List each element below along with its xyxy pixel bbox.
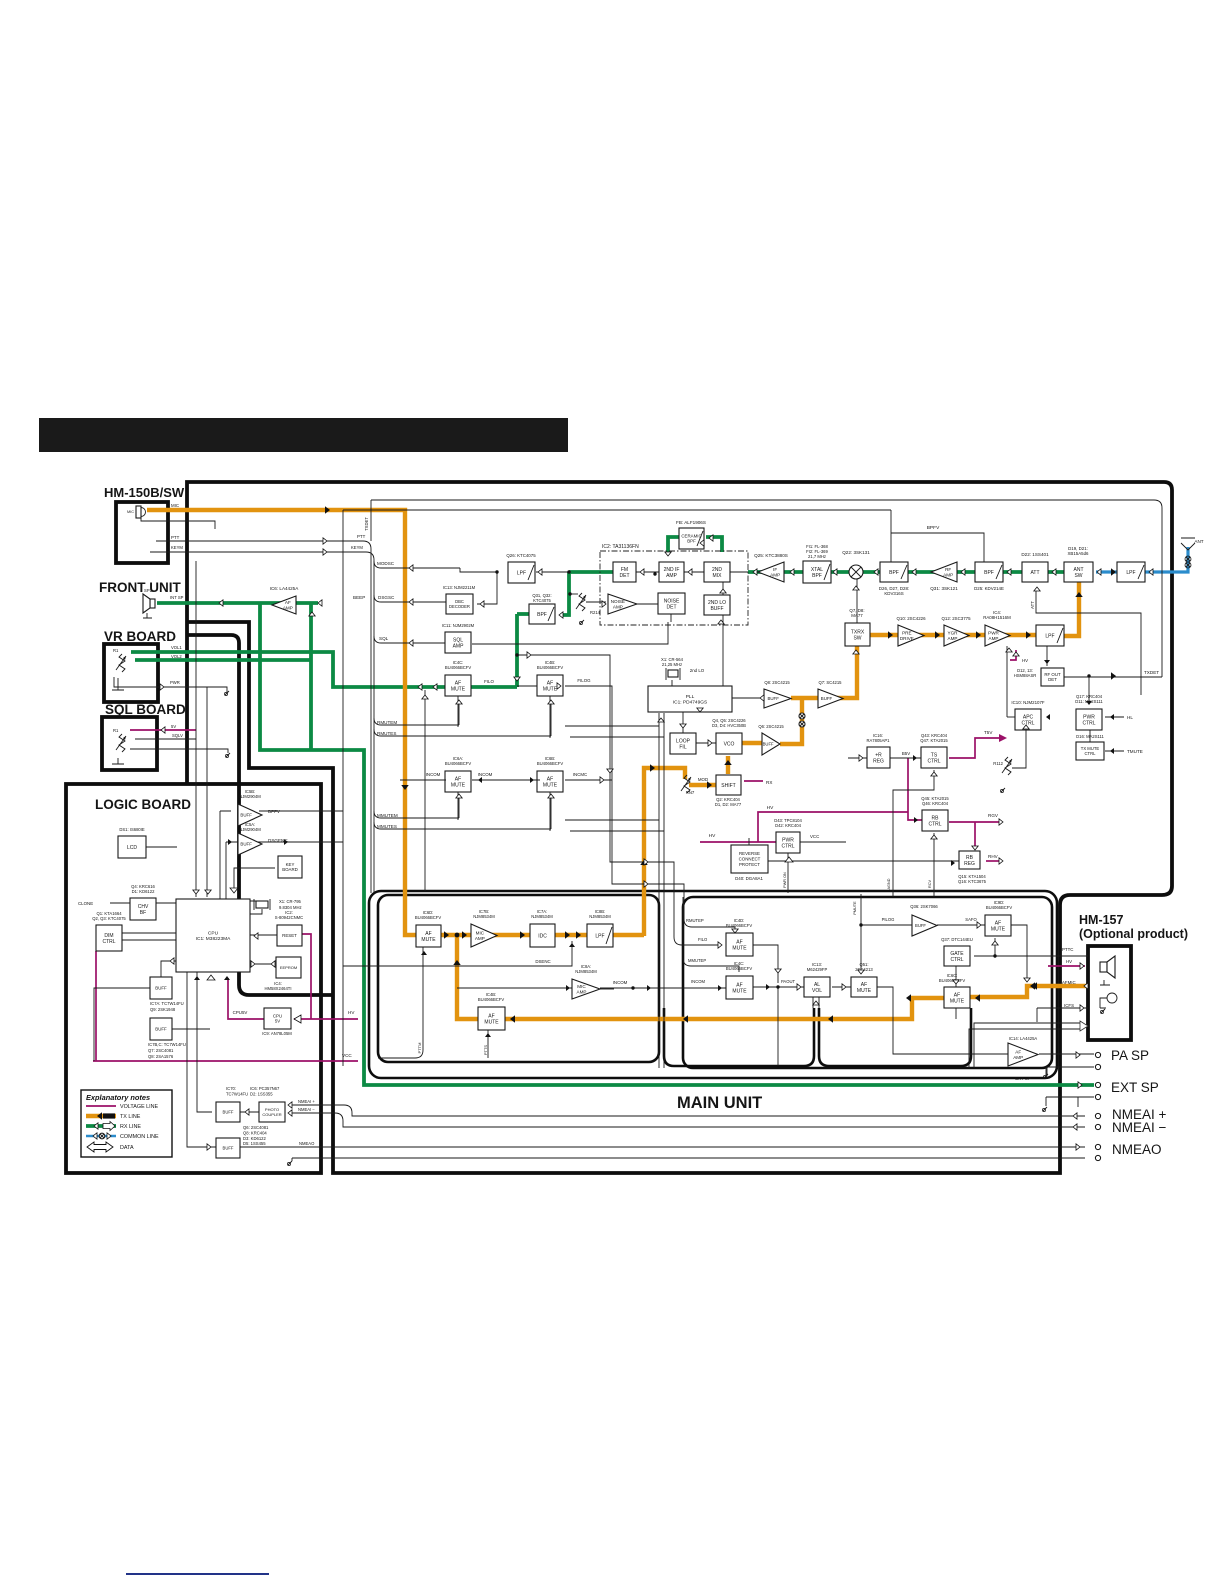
svg-text:TXDET: TXDET [364,517,369,531]
svg-text:2nd LO: 2nd LO [690,668,705,673]
svg-text:BU4066BCFV: BU4066BCFV [537,665,564,670]
svg-text:CTRL: CTRL [102,939,115,945]
svg-text:D5: 1SS455: D5: 1SS455 [243,1141,266,1146]
svg-text:SQL: SQL [379,636,389,641]
svg-text:RX: RX [766,780,772,785]
svg-text:CPU5V: CPU5V [233,1010,248,1015]
svg-text:PLL: PLL [686,694,695,700]
svg-text:SP1: SP1 [144,588,153,593]
svg-text:AFMIC: AFMIC [1062,980,1076,985]
svg-text:AMP: AMP [453,643,465,649]
svg-text:YGR: YGR [948,630,959,635]
svg-text:BUFF: BUFF [915,923,926,928]
svg-text:BU4066BCFV: BU4066BCFV [537,761,564,766]
svg-text:SHIFT: SHIFT [721,783,735,789]
svg-text:DSGSC: DSGSC [378,595,395,600]
svg-text:EXT SP: EXT SP [1111,1080,1159,1095]
svg-text:NJM2904M: NJM2904M [239,794,261,799]
svg-text:VOL: VOL [812,988,822,994]
svg-text:CTRL: CTRL [1085,751,1097,756]
svg-text:NJM8534M: NJM8534M [531,914,553,919]
svg-text:PWR: PWR [170,680,180,685]
svg-text:BPF: BPF [537,612,547,618]
svg-text:PWR: PWR [988,630,999,635]
svg-text:IF: IF [773,567,777,572]
svg-text:BUFF: BUFF [821,696,833,701]
svg-text:ICFS: ICFS [1064,1003,1074,1008]
svg-text:Q6: 2SC4215: Q6: 2SC4215 [758,724,784,729]
svg-text:CLONE: CLONE [78,901,93,906]
svg-text:BU4066BCFV: BU4066BCFV [939,978,966,983]
svg-text:AF: AF [285,600,291,605]
svg-text:RMUTES: RMUTES [377,731,396,736]
svg-text:IC2: TA31136FN: IC2: TA31136FN [602,544,639,550]
svg-text:VOL2: VOL2 [171,654,182,659]
svg-text:COUPLER: COUPLER [262,1112,281,1117]
svg-text:MUTE: MUTE [991,926,1006,932]
svg-text:INCOM: INCOM [613,980,628,985]
svg-text:BUFF: BUFF [240,842,252,847]
svg-text:DS1: IS680IE: DS1: IS680IE [119,827,145,832]
svg-text:SW: SW [1074,573,1082,579]
svg-text:FILOG: FILOG [577,678,591,683]
svg-text:FILO: FILO [484,679,494,684]
svg-text:FILO: FILO [698,937,708,942]
svg-text:AMP: AMP [577,989,587,994]
svg-text:PA SP: PA SP [1111,1048,1149,1063]
svg-text:PRE: PRE [902,630,911,635]
svg-text:AMP: AMP [943,572,953,577]
svg-text:VOL1: VOL1 [171,645,182,650]
svg-text:TC7W14FU: TC7W14FU [226,1091,248,1096]
svg-text:NOISE: NOISE [611,599,625,604]
svg-text:AMP: AMP [770,572,780,577]
svg-text:D1, D2: MA77: D1, D2: MA77 [715,802,742,807]
svg-text:BU4066BCFV: BU4066BCFV [986,905,1013,910]
svg-text:DSENC: DSENC [535,959,550,964]
svg-text:IC6: LA4425A: IC6: LA4425A [270,586,300,591]
svg-text:T5V: T5V [984,730,993,735]
svg-text:RHV: RHV [988,854,999,859]
svg-text:CERAMIC: CERAMIC [681,533,701,538]
svg-text:KEYM: KEYM [171,545,183,550]
svg-text:MIC: MIC [127,510,134,514]
svg-text:INCOM: INCOM [691,979,705,984]
svg-text:MUTE: MUTE [451,686,466,692]
svg-text:LPF: LPF [595,933,604,939]
svg-text:NJM8534M: NJM8534M [589,914,611,919]
svg-text:D2: 1SS355: D2: 1SS355 [250,1091,273,1096]
svg-text:BPFV: BPFV [927,525,940,531]
svg-text:AMP: AMP [613,604,623,609]
svg-text:HV: HV [1022,658,1028,663]
svg-text:5V: 5V [171,724,176,729]
svg-text:DET: DET [667,604,677,610]
svg-text:MUTE: MUTE [732,945,747,951]
svg-text:LPF: LPF [1045,633,1054,639]
svg-text:IC14: LA4425A: IC14: LA4425A [1009,1036,1038,1041]
svg-text:BPF: BPF [687,539,696,544]
svg-text:VCO: VCO [724,741,735,747]
svg-text:R1: R1 [113,728,119,733]
svg-text:FRONT UNIT: FRONT UNIT [99,580,181,595]
svg-text:BUFF: BUFF [223,1145,234,1150]
svg-text:NJM8534M: NJM8534M [575,969,597,974]
svg-text:REVERSE: REVERSE [739,851,760,856]
svg-text:MA77: MA77 [851,613,863,618]
svg-text:Q26: KTC4075: Q26: KTC4075 [506,553,536,558]
svg-text:REG: REG [873,758,884,764]
svg-text:MMUTEM: MMUTEM [377,813,398,818]
svg-text:CTRL: CTRL [781,843,794,849]
svg-text:TX LINE: TX LINE [120,1114,141,1120]
svg-text:LCD: LCD [127,845,137,851]
svg-text:IDC: IDC [538,933,547,939]
svg-text:Q8: KRC404: Q8: KRC404 [243,1130,267,1135]
svg-text:NMEAO: NMEAO [299,1141,315,1146]
svg-text:BPFV: BPFV [268,809,281,814]
svg-text:RA08H1516M: RA08H1516M [983,615,1011,620]
svg-text:IC7A: TC7W14FU: IC7A: TC7W14FU [150,1001,184,1006]
svg-text:PTT: PTT [171,535,180,540]
svg-text:BUFF: BUFF [710,606,723,612]
svg-text:AMP: AMP [989,636,999,641]
svg-text:Explanatory notes: Explanatory notes [86,1093,150,1102]
svg-text:NMEAI −: NMEAI − [1112,1120,1167,1135]
svg-text:D16: MA2S111: D16: MA2S111 [1076,734,1104,739]
svg-text:CONNECT: CONNECT [739,857,761,862]
svg-text:INCOM: INCOM [478,772,493,777]
svg-text:NMEAI +: NMEAI + [298,1099,315,1104]
svg-text:RF: RF [945,567,951,572]
svg-text:BU4066BCFV: BU4066BCFV [445,761,472,766]
svg-text:LOGIC BOARD: LOGIC BOARD [95,797,191,812]
svg-text:INT SP: INT SP [170,595,184,600]
svg-text:Q2, Q3: KTC4075: Q2, Q3: KTC4075 [92,916,126,921]
svg-text:ATT: ATT [1030,570,1039,576]
svg-text:MUTE: MUTE [950,998,965,1004]
svg-text:MMUTEP: MMUTEP [688,958,706,963]
svg-text:RMUTEP: RMUTEP [686,918,704,923]
svg-text:VCC: VCC [342,1053,352,1058]
svg-text:Q9: 2SK1948: Q9: 2SK1948 [150,1007,176,1012]
svg-text:DRIVE: DRIVE [900,636,914,641]
svg-text:BU4066BCFV: BU4066BCFV [726,966,753,971]
svg-text:Q8: 2SA1576: Q8: 2SA1576 [148,1054,174,1059]
svg-text:IC9: AN78L05M: IC9: AN78L05M [262,1031,292,1036]
svg-text:BU4066BCFV: BU4066BCFV [726,923,753,928]
svg-text:MMUTES: MMUTES [377,824,397,829]
svg-text:Q47: KTA2015: Q47: KTA2015 [920,738,948,743]
svg-text:HL: HL [1127,715,1133,720]
svg-text:SQLV: SQLV [172,733,183,738]
svg-text:AF: AF [1015,1049,1021,1054]
svg-text:NMEAO: NMEAO [1112,1142,1162,1157]
svg-text:BPF: BPF [812,573,822,579]
svg-text:AMP: AMP [475,936,485,941]
svg-text:PMUTE: PMUTE [853,901,857,915]
svg-text:EEPROM: EEPROM [280,965,297,970]
svg-text:IC70:: IC70: [226,1086,236,1091]
svg-text:PWR ON: PWR ON [783,872,787,888]
svg-text:IC6: PC357N67: IC6: PC357N67 [250,1086,280,1091]
svg-text:M62429FP: M62429FP [807,967,828,972]
svg-text:21,7 MHz: 21,7 MHz [808,554,826,559]
svg-text:AMP: AMP [666,573,678,579]
svg-text:SAFO: SAFO [965,917,977,922]
svg-text:MIX: MIX [713,573,723,579]
svg-text:Q10: 2SC4226: Q10: 2SC4226 [896,616,926,621]
svg-text:IC1: PD4749GS: IC1: PD4749GS [673,700,707,706]
svg-text:NJM2904M: NJM2904M [239,827,261,832]
svg-text:D42: KRC404: D42: KRC404 [775,823,802,828]
svg-text:INCOM: INCOM [426,772,441,777]
svg-text:MUTE: MUTE [451,782,466,788]
svg-text:2SC4213: 2SC4213 [855,967,873,972]
svg-text:MIC: MIC [476,930,485,935]
svg-text:Q6: 2SC4081: Q6: 2SC4081 [243,1125,269,1130]
svg-text:VR BOARD: VR BOARD [104,629,176,644]
svg-text:PTT: PTT [357,534,366,539]
svg-text:IC10: NJM2107F: IC10: NJM2107F [1011,700,1045,705]
svg-text:CTRL: CTRL [928,821,941,827]
svg-text:BF: BF [140,910,146,916]
svg-text:21,25 MHz: 21,25 MHz [662,662,682,667]
svg-text:AMP: AMP [1013,1055,1023,1060]
svg-text:BPF: BPF [889,570,899,576]
svg-text:5V: 5V [275,1019,280,1024]
svg-text:MIC: MIC [577,984,586,989]
svg-text:IC1: M38223MA: IC1: M38223MA [196,936,231,942]
svg-text:PAOUT: PAOUT [781,979,796,984]
svg-text:BUFF: BUFF [155,986,167,991]
svg-text:AMP: AMP [948,636,958,641]
svg-text:Q16: KTC3675: Q16: KTC3675 [958,879,987,884]
svg-text:HSM88ASR: HSM88ASR [1014,673,1037,678]
svg-text:D3, D4: HVC350B: D3, D4: HVC350B [712,723,746,728]
svg-text:HV: HV [1066,959,1072,964]
svg-text:PTTS: PTTS [483,1045,488,1056]
svg-text:DECODER: DECODER [449,604,470,609]
svg-text:MIC: MIC [171,503,179,508]
svg-text:BUFF: BUFF [240,813,252,818]
svg-text:Q7: 2SC4081: Q7: 2SC4081 [148,1048,174,1053]
svg-text:Q31: 3SK121: Q31: 3SK121 [930,586,958,591]
svg-text:BU4066BCFV: BU4066BCFV [478,997,505,1002]
svg-text:DET: DET [620,573,630,579]
svg-text:PROTECT: PROTECT [739,862,760,867]
svg-text:IC13: NJM2211M: IC13: NJM2211M [443,585,476,590]
svg-text:CPU: CPU [208,930,219,936]
svg-text:BOARD: BOARD [282,867,298,872]
svg-text:RF OUT: RF OUT [1044,672,1061,677]
svg-text:MAIN UNIT: MAIN UNIT [677,1094,762,1112]
svg-text:REG: REG [964,861,975,867]
svg-text:HM-150B/SW: HM-150B/SW [104,485,185,500]
svg-text:HM58X2464TI: HM58X2464TI [265,986,292,991]
svg-text:RN7: RN7 [686,790,695,795]
svg-text:MUTE: MUTE [484,1019,499,1025]
svg-text:ANT: ANT [1194,539,1203,544]
svg-text:BUFF: BUFF [763,741,774,746]
svg-text:KEY: KEY [286,862,295,867]
svg-text:LPF: LPF [1126,570,1135,576]
svg-text:Q36: 2SK7066: Q36: 2SK7066 [910,904,938,909]
svg-text:MUTE: MUTE [857,988,872,994]
svg-text:TMUTE: TMUTE [1127,749,1143,754]
svg-text:R1: R1 [113,648,119,653]
svg-text:RESET: RESET [282,933,297,938]
svg-text:MODSC: MODSC [377,561,395,566]
svg-text:KDV316S: KDV316S [884,591,903,596]
svg-text:R112: R112 [993,761,1003,766]
svg-text:R214: R214 [590,610,601,615]
svg-text:RX LINE: RX LINE [120,1124,141,1130]
svg-text:CTRL: CTRL [1082,720,1095,726]
svg-text:BUFF: BUFF [767,696,779,701]
svg-text:D1: KD6122: D1: KD6122 [132,889,155,894]
svg-text:MOD: MOD [698,777,708,782]
svg-text:XB15A5d6: XB15A5d6 [1068,551,1090,556]
svg-text:Q25: KTC3880S: Q25: KTC3880S [754,553,788,558]
svg-text:D25: KDV214E: D25: KDV214E [974,586,1004,591]
svg-text:Q8: 2SC4215: Q8: 2SC4215 [764,680,790,685]
svg-text:NJM8534M: NJM8534M [473,914,495,919]
svg-text:BU4066BCFV: BU4066BCFV [415,915,442,920]
svg-text:CTRL: CTRL [1021,720,1034,726]
svg-text:NMEAI −: NMEAI − [298,1107,315,1112]
svg-text:COMMON LINE: COMMON LINE [120,1134,159,1140]
svg-text:Q22: 3SK131: Q22: 3SK131 [842,550,870,555]
svg-text:BU4066BCFV: BU4066BCFV [445,665,472,670]
svg-text:INCMC: INCMC [573,772,587,777]
svg-text:IC11: NJM2902M: IC11: NJM2902M [442,623,475,628]
svg-text:CTRL: CTRL [927,758,940,764]
svg-text:S-80942CNMC: S-80942CNMC [275,915,303,920]
svg-text:MUTE: MUTE [421,937,436,943]
svg-text:DATA: DATA [120,1145,134,1151]
svg-text:RMUTEM: RMUTEM [377,720,397,725]
svg-text:VCC: VCC [810,834,819,839]
svg-text:X1: CR-795: X1: CR-795 [279,899,302,904]
svg-text:CPU: CPU [273,1013,282,1018]
svg-text:FB: ALF1906S: FB: ALF1906S [676,520,706,525]
svg-text:Q37: DTC144EU: Q37: DTC144EU [941,937,973,942]
svg-text:Q12: 2SC3775: Q12: 2SC3775 [941,616,971,621]
svg-text:KEYM: KEYM [351,545,363,550]
svg-text:PILOG: PILOG [882,917,895,922]
svg-text:D40: DGA8A1: D40: DGA8A1 [735,876,763,881]
svg-text:IC7B,C: TC7W14FU: IC7B,C: TC7W14FU [148,1042,186,1047]
svg-text:MUTE: MUTE [543,782,558,788]
svg-text:SW: SW [853,635,861,641]
svg-text:SQL BOARD: SQL BOARD [105,702,186,717]
svg-text:MUTE: MUTE [543,686,558,692]
svg-text:BUFF: BUFF [223,1109,234,1114]
svg-text:BPF: BPF [984,570,994,576]
svg-text:MUTE: MUTE [732,988,747,994]
svg-text:HV: HV [709,833,716,839]
svg-text:HV: HV [348,1010,355,1015]
svg-text:D3: KD6122: D3: KD6122 [243,1136,266,1141]
svg-text:AMP: AMP [283,605,293,610]
svg-text:B5V: B5V [902,751,910,756]
svg-text:HV: HV [767,805,774,811]
svg-text:ATT: ATT [1030,601,1035,609]
svg-text:CTRL: CTRL [950,957,963,963]
svg-text:BUFF: BUFF [155,1027,167,1032]
svg-text:Q46: KRC404: Q46: KRC404 [922,801,949,806]
svg-text:AGND: AGND [887,878,891,889]
svg-text:EXT SP: EXT SP [1015,1076,1031,1081]
svg-text:KTC4075: KTC4075 [533,598,551,603]
svg-text:LPF: LPF [517,570,526,576]
svg-text:PTTC: PTTC [1062,947,1073,952]
svg-text:RA7805AP1: RA7805AP1 [866,738,890,743]
svg-text:RCV: RCV [928,880,932,888]
svg-text:DET: DET [1048,677,1057,682]
svg-text:PTTM: PTTM [417,1043,422,1054]
svg-text:TXDET: TXDET [1144,670,1159,675]
svg-text:FIL: FIL [679,744,686,750]
svg-text:BEEP: BEEP [353,595,365,600]
svg-text:Q7: SC4215: Q7: SC4215 [818,680,842,685]
svg-text:VOLTAGE LINE: VOLTAGE LINE [120,1104,159,1110]
svg-text:D22: 1SS401: D22: 1SS401 [1021,552,1049,557]
svg-text:RGV: RGV [988,813,999,818]
svg-text:HM-157: HM-157 [1079,913,1124,927]
svg-text:(Optional product): (Optional product) [1079,927,1188,941]
